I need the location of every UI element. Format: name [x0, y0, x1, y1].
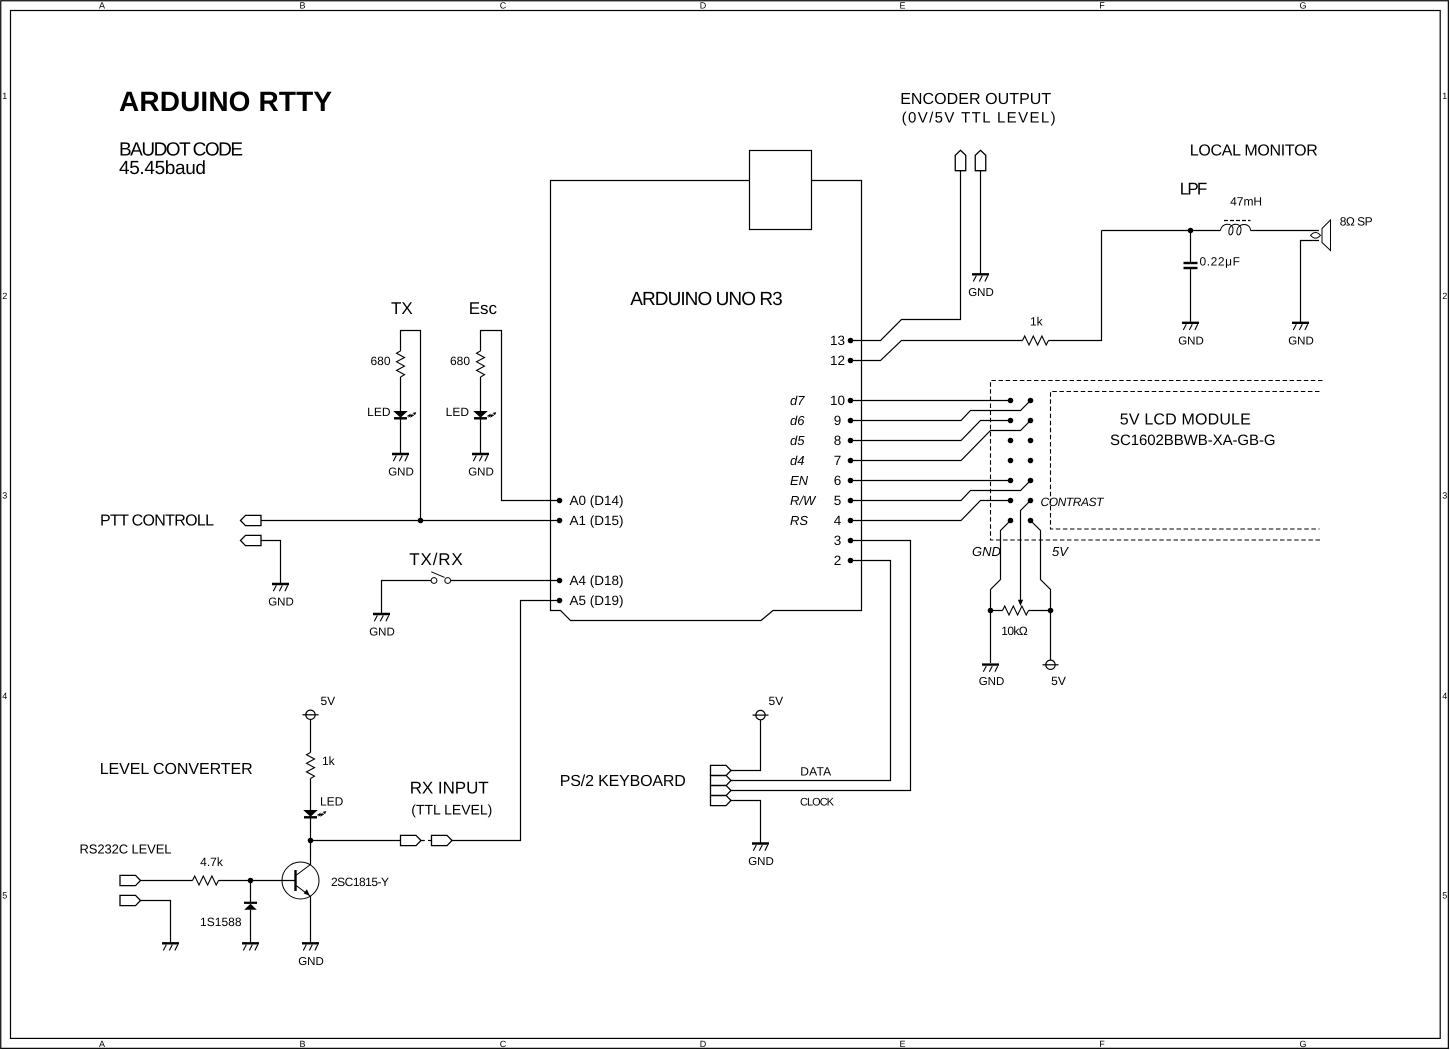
- capacitor C1 plates: [1184, 262, 1198, 264]
- wire LED to ground (Esc): [480, 420, 482, 454]
- inductor core dashes: [1224, 220, 1251, 222]
- svg-text:LED: LED: [367, 405, 391, 419]
- ground (Esc LED): [472, 454, 489, 461]
- wire diode lead top: [250, 881, 252, 903]
- transistor Q1 base bar: [294, 870, 296, 891]
- svg-text:5V: 5V: [321, 694, 336, 708]
- svg-text:G: G: [1299, 1, 1306, 11]
- power 5V symbol (level converter): [303, 710, 319, 719]
- USB connector box: [750, 151, 812, 230]
- svg-text:8Ω SP: 8Ω SP: [1340, 215, 1373, 229]
- svg-text:5V LCD MODULE: 5V LCD MODULE: [1120, 412, 1251, 429]
- resistor 1k (level converter): [307, 753, 315, 779]
- wire switch left to ground: [382, 581, 432, 614]
- wire pin 9 to LCD d6: [851, 401, 1031, 421]
- svg-text:D: D: [700, 1039, 707, 1049]
- connector PTT ground: [241, 535, 262, 545]
- svg-text:1S1588: 1S1588: [200, 915, 242, 929]
- svg-text:3: 3: [1442, 491, 1447, 501]
- svg-text:CONTRAST: CONTRAST: [1041, 495, 1106, 509]
- svg-text:7: 7: [834, 453, 842, 468]
- svg-text:1: 1: [1442, 91, 1447, 101]
- svg-text:GND: GND: [369, 627, 395, 639]
- wire resistor to LED (Esc): [480, 377, 482, 411]
- wire stub RX female: [428, 840, 432, 842]
- svg-text:9: 9: [834, 413, 842, 428]
- potentiometer wiper arrow: [1018, 600, 1023, 606]
- wire inductor to speaker: [1251, 230, 1320, 232]
- junction RX output node: [308, 838, 314, 844]
- svg-text:3: 3: [2, 491, 7, 501]
- junction pot left: [988, 608, 994, 614]
- svg-text:RX INPUT: RX INPUT: [410, 779, 489, 798]
- potentiometer 10k body: [991, 610, 1003, 612]
- transistor Q1 emitter: [297, 886, 311, 897]
- svg-text:47mH: 47mH: [1230, 194, 1262, 208]
- svg-text:F: F: [1099, 1039, 1105, 1049]
- svg-text:0.22μF: 0.22μF: [1200, 255, 1241, 269]
- svg-text:RS232C LEVEL: RS232C LEVEL: [80, 842, 172, 857]
- speaker SP1 driver: [1311, 232, 1321, 238]
- ground (transistor): [302, 943, 319, 950]
- svg-text:TX: TX: [391, 299, 413, 318]
- wire 4.7k to base: [219, 880, 296, 882]
- svg-text:5: 5: [2, 891, 7, 901]
- svg-text:3: 3: [834, 533, 842, 548]
- wire encoder ground connector to ground: [980, 171, 982, 274]
- wire switch right to A4: [451, 580, 560, 582]
- svg-text:CLOCK: CLOCK: [800, 797, 835, 809]
- svg-text:G: G: [1299, 1039, 1306, 1049]
- wire TX top and drop to A1 line: [401, 331, 421, 521]
- svg-text:ENCODER OUTPUT: ENCODER OUTPUT: [900, 91, 1051, 108]
- wire RS232 to 4.7k: [141, 880, 193, 882]
- svg-text:d7: d7: [790, 393, 805, 408]
- svg-text:A4 (D18): A4 (D18): [570, 573, 624, 588]
- wire pin 12 to 1k resistor: [851, 341, 1023, 361]
- wire LCD GND pin down: [991, 521, 1011, 664]
- wire diode to ground: [250, 910, 252, 943]
- svg-text:TX/RX: TX/RX: [409, 550, 463, 569]
- svg-text:d6: d6: [790, 413, 805, 428]
- svg-text:A: A: [99, 1039, 105, 1049]
- wire LED to collector: [310, 819, 312, 865]
- svg-text:PTT CONTROLL: PTT CONTROLL: [100, 513, 214, 530]
- wire pin 4 to LCD RS: [851, 501, 1011, 521]
- svg-text:ARDUINO UNO R3: ARDUINO UNO R3: [630, 289, 783, 310]
- svg-text:A0 (D14): A0 (D14): [570, 493, 624, 508]
- svg-text:5V: 5V: [769, 694, 784, 708]
- svg-text:LEVEL CONVERTER: LEVEL CONVERTER: [100, 761, 253, 778]
- svg-text:LED: LED: [320, 795, 344, 809]
- wire contrast to potentiometer wiper: [1021, 501, 1031, 601]
- svg-text:EN: EN: [790, 473, 809, 488]
- resistor 680 (TX): [397, 351, 405, 377]
- inductor L1 47mH: [1221, 224, 1251, 235]
- wire RX input to A5: [452, 601, 560, 841]
- svg-text:8: 8: [834, 433, 842, 448]
- wire pin 10 to LCD d7: [851, 400, 1011, 402]
- svg-text:GND: GND: [1288, 335, 1314, 347]
- svg-text:LED: LED: [446, 405, 470, 419]
- svg-text:45.45baud: 45.45baud: [119, 158, 206, 179]
- svg-text:13: 13: [830, 333, 845, 348]
- svg-text:5: 5: [834, 493, 842, 508]
- wire emitter to ground: [310, 896, 312, 943]
- svg-text:C: C: [500, 1, 507, 11]
- resistor 4.7k: [193, 876, 219, 885]
- svg-text:GND: GND: [388, 467, 414, 479]
- ground (PTT): [272, 584, 289, 591]
- wire 1k to LPF: [1049, 231, 1102, 341]
- svg-text:E: E: [899, 1, 905, 11]
- ground (pot): [982, 665, 999, 672]
- svg-text:B: B: [299, 1, 305, 11]
- PS/2 connector pin 3: [711, 785, 732, 795]
- transistor Q1 emitter arrow: [304, 889, 310, 896]
- svg-text:5V: 5V: [1052, 544, 1069, 559]
- svg-text:A1 (D15): A1 (D15): [570, 513, 624, 528]
- svg-text:F: F: [1099, 1, 1105, 11]
- svg-text:C: C: [500, 1039, 507, 1049]
- wire PTT to A1: [261, 520, 560, 522]
- switch SW1 lever: [431, 572, 444, 578]
- wire Esc top, drop and connect to A0: [481, 331, 560, 501]
- svg-text:GND: GND: [972, 544, 1001, 559]
- wire 1k to LED: [310, 779, 312, 811]
- wire 5V to 1k: [310, 720, 312, 753]
- svg-text:GND: GND: [748, 856, 774, 868]
- svg-text:12: 12: [830, 353, 845, 368]
- ground (diode): [242, 943, 259, 950]
- wire CLOCK to pin 3: [731, 541, 911, 791]
- wire RX node to connector: [311, 840, 401, 842]
- svg-text:E: E: [899, 1039, 905, 1049]
- wire stub RX male: [421, 840, 425, 842]
- svg-text:(0V/5V TTL LEVEL): (0V/5V TTL LEVEL): [902, 110, 1056, 127]
- svg-text:1: 1: [2, 91, 7, 101]
- svg-text:4: 4: [2, 691, 7, 701]
- wire pin 6 to LCD EN: [851, 480, 1011, 482]
- svg-text:d5: d5: [790, 433, 805, 448]
- svg-text:LOCAL MONITOR: LOCAL MONITOR: [1190, 142, 1318, 159]
- connector RX female: [432, 835, 453, 845]
- resistor 1k (monitor): [1023, 336, 1049, 345]
- svg-text:GND: GND: [968, 287, 994, 299]
- svg-text:PS/2 KEYBOARD: PS/2 KEYBOARD: [560, 773, 686, 790]
- connector encoder ground: [975, 150, 986, 170]
- diode D4 1S1588: [244, 902, 257, 904]
- svg-text:ARDUINO RTTY: ARDUINO RTTY: [119, 86, 332, 117]
- ground (RS232): [162, 943, 179, 950]
- svg-text:6: 6: [834, 473, 842, 488]
- svg-text:1k: 1k: [322, 754, 336, 768]
- ground (speaker): [1292, 323, 1309, 330]
- ground (TX/RX switch): [373, 614, 390, 621]
- power 5V symbol (PS/2): [753, 710, 769, 719]
- wire LCD 5V pin down: [1031, 521, 1051, 661]
- svg-text:R/W: R/W: [790, 493, 817, 508]
- LED D3 (RX indicator): [304, 810, 326, 817]
- LED D2 (Esc): [474, 411, 496, 418]
- transistor Q1 2SC1815-Y circle: [282, 862, 319, 899]
- svg-text:10: 10: [830, 393, 845, 408]
- PS/2 connector pin 4: [711, 795, 732, 805]
- svg-text:GND: GND: [468, 467, 494, 479]
- svg-text:GND: GND: [298, 956, 324, 968]
- ground (capacitor): [1182, 323, 1199, 330]
- wire pin 8 to LCD d5: [851, 421, 1011, 441]
- svg-text:GND: GND: [1178, 335, 1204, 347]
- ground (TX LED): [392, 454, 409, 461]
- wire PS/2 ground: [731, 801, 761, 844]
- LCD module outer dashed box: [991, 381, 1323, 541]
- LCD module inner dashed box: [1051, 392, 1320, 530]
- wire LPF input: [1102, 230, 1221, 232]
- PS/2 connector pin 2: [711, 775, 732, 785]
- LED D1 (TX): [394, 411, 416, 418]
- wire pin 7 to LCD d4: [851, 421, 1031, 461]
- LCD connector pin dots: [1008, 398, 1014, 404]
- svg-text:680: 680: [450, 354, 470, 368]
- svg-text:2: 2: [1442, 291, 1447, 301]
- svg-text:GND: GND: [268, 597, 294, 609]
- capacitor C1 0.22uF lead: [1190, 231, 1192, 263]
- svg-text:2: 2: [834, 553, 842, 568]
- svg-text:680: 680: [370, 354, 390, 368]
- wire PTT ground connector to ground: [261, 541, 281, 584]
- svg-text:(TTL LEVEL): (TTL LEVEL): [411, 801, 492, 817]
- connector RS232 ground: [120, 895, 141, 905]
- connector RS232 input: [120, 875, 141, 885]
- connector RX male: [401, 835, 422, 845]
- wire speaker bottom to ground: [1301, 241, 1320, 323]
- switch SW1 contacts: [431, 578, 437, 584]
- svg-text:D: D: [700, 1, 707, 11]
- ground (PS/2): [752, 844, 769, 851]
- svg-text:B: B: [299, 1039, 305, 1049]
- svg-text:RS: RS: [790, 513, 808, 528]
- wire capacitor to ground: [1190, 269, 1192, 322]
- svg-text:5: 5: [1442, 891, 1447, 901]
- svg-text:4: 4: [1442, 691, 1447, 701]
- svg-text:5V: 5V: [1051, 674, 1066, 688]
- svg-text:LPF: LPF: [1180, 180, 1208, 199]
- junction TX/A1: [418, 518, 424, 524]
- svg-text:2SC1815-Y: 2SC1815-Y: [331, 875, 389, 889]
- ground (encoder): [972, 274, 989, 281]
- U1 right pin dots: [848, 338, 854, 344]
- junction LPF node: [1188, 228, 1194, 234]
- speaker SP1 cone: [1322, 220, 1331, 251]
- Arduino UNO R3 box U1: [551, 181, 862, 621]
- wire RS232 ground connector to ground: [141, 901, 171, 944]
- wire PS/2 5V: [731, 720, 761, 771]
- resistor 680 (Esc): [477, 351, 485, 377]
- U1 left pin dots: [557, 498, 563, 504]
- wire pin 5 to LCD R/W: [851, 481, 1031, 501]
- svg-text:2: 2: [2, 291, 7, 301]
- PS/2 connector pin 1: [711, 765, 732, 775]
- connector encoder signal: [955, 150, 966, 170]
- svg-text:4.7k: 4.7k: [200, 855, 224, 869]
- power 5V symbol (pot): [1043, 660, 1059, 669]
- svg-text:d4: d4: [790, 453, 804, 468]
- junction pot right: [1048, 608, 1054, 614]
- svg-text:A5 (D19): A5 (D19): [570, 593, 624, 608]
- wire LED to ground (TX): [400, 420, 402, 454]
- svg-text:GND: GND: [979, 676, 1005, 688]
- svg-text:Esc: Esc: [469, 299, 498, 318]
- svg-text:1k: 1k: [1030, 315, 1044, 329]
- svg-text:DATA: DATA: [800, 764, 831, 778]
- wire DATA to pin 2: [731, 561, 891, 781]
- connector PTT signal: [241, 515, 262, 525]
- junction base/diode node: [248, 878, 254, 884]
- svg-text:A: A: [99, 1, 105, 11]
- wire encoder signal to pin 13: [851, 171, 961, 341]
- svg-text:10kΩ: 10kΩ: [1001, 624, 1028, 638]
- transistor Q1 collector: [297, 865, 311, 876]
- svg-text:4: 4: [834, 513, 842, 528]
- svg-text:SC1602BBWB-XA-GB-G: SC1602BBWB-XA-GB-G: [1110, 432, 1276, 449]
- wire resistor to LED (TX): [400, 377, 402, 411]
